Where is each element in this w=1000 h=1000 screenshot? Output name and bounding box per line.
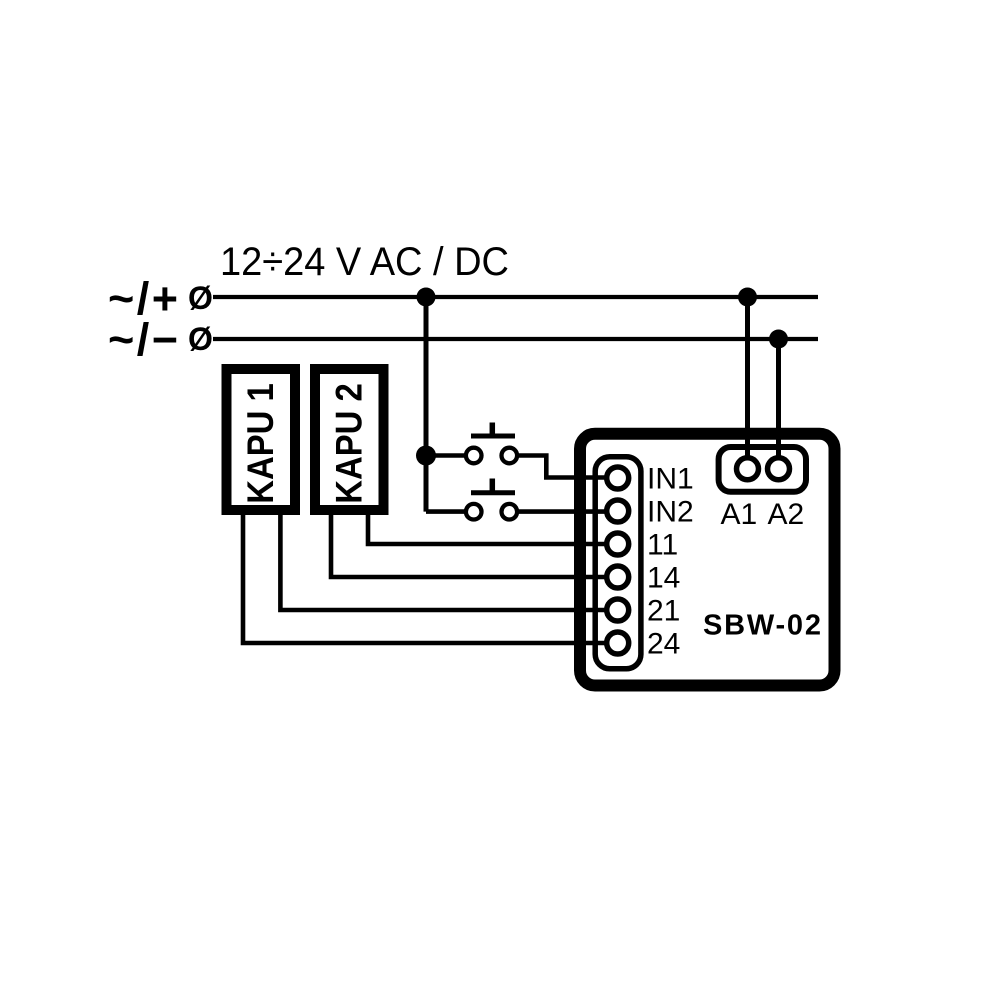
svg-text:Ø: Ø [188,280,213,316]
svg-text:24: 24 [647,628,680,661]
svg-text:A1: A1 [721,498,758,531]
svg-text:KAPU 2: KAPU 2 [329,383,370,504]
svg-text:14: 14 [647,562,680,595]
svg-text:SBW-02: SBW-02 [703,610,823,642]
svg-text:A2: A2 [768,498,805,531]
svg-text:~/−: ~/− [108,314,181,365]
svg-text:11: 11 [647,529,678,562]
svg-text:21: 21 [647,595,680,628]
svg-text:12÷24 V AC / DC: 12÷24 V AC / DC [220,240,509,284]
svg-text:KAPU 1: KAPU 1 [240,383,281,504]
svg-text:IN1: IN1 [647,463,694,496]
svg-text:Ø: Ø [188,321,213,357]
svg-text:IN2: IN2 [647,496,694,529]
